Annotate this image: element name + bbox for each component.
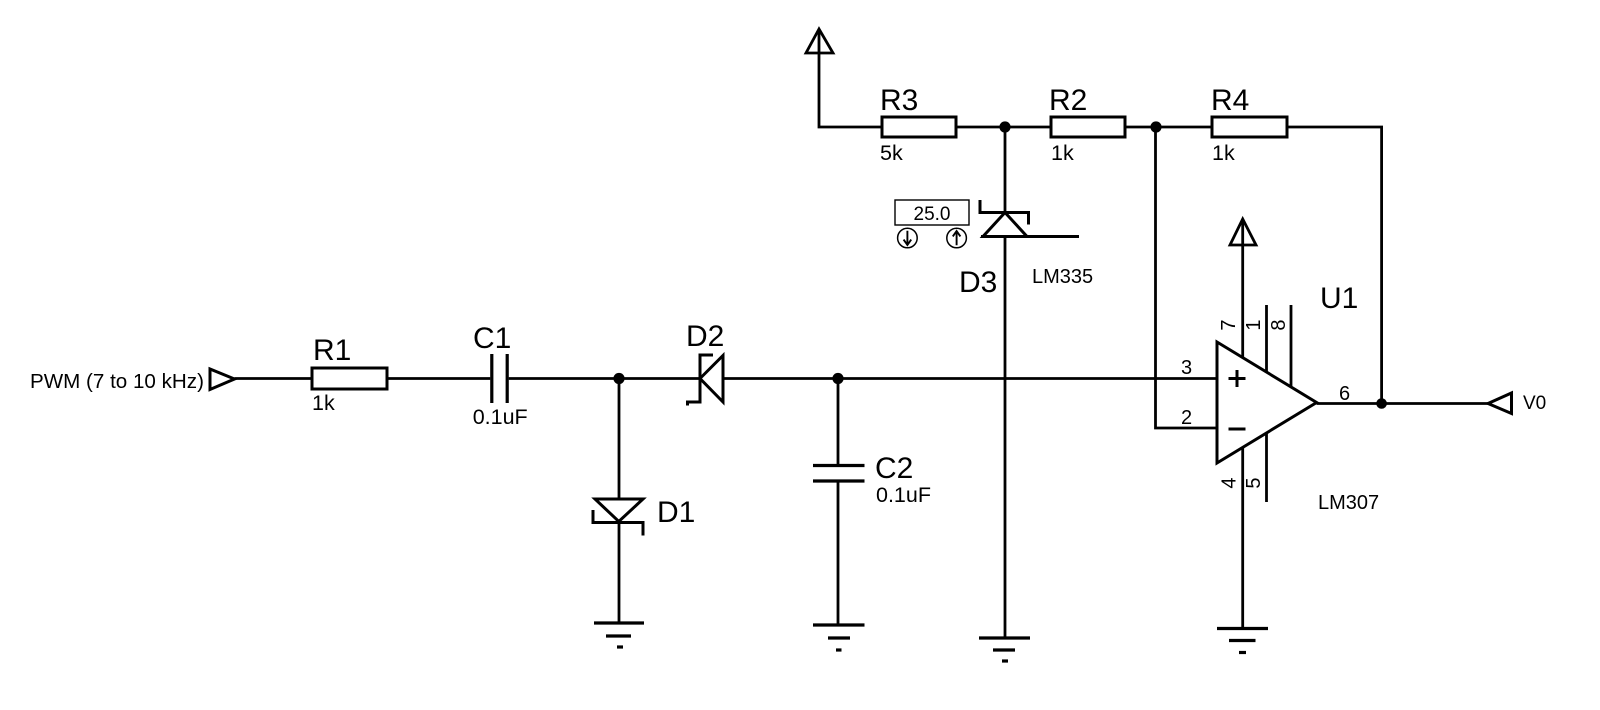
button up [947, 228, 967, 248]
wire inverting input from node D to pin 2 [1156, 127, 1218, 428]
svg-text:1: 1 [1243, 319, 1265, 330]
temp sensor diode D3 LM335 [980, 200, 1029, 225]
port V0 output arrow [1488, 393, 1512, 414]
wire C2 to ground [837, 481, 840, 625]
resistor R4 [1212, 117, 1287, 137]
svg-text:6: 6 [1339, 383, 1350, 405]
display 25.0 readout box [895, 200, 969, 225]
port PWM input arrow [210, 369, 235, 390]
svg-text:5: 5 [1243, 477, 1265, 488]
minus symbol [1229, 428, 1246, 431]
wire D3 down to ground [1004, 237, 1007, 639]
wire R1 to C1 [387, 377, 490, 380]
power VCC arrow for U1 [1230, 219, 1256, 245]
svg-text:D2: D2 [686, 320, 724, 353]
wire D2 to op-amp pin 3 [723, 377, 1217, 380]
svg-text:5k: 5k [880, 141, 903, 165]
svg-text:V0: V0 [1523, 393, 1546, 414]
wire D1 to ground [618, 523, 621, 624]
pin 4 stub to ground [1241, 445, 1244, 629]
wire R4 right and down to output node [1287, 127, 1382, 404]
svg-text:7: 7 [1218, 319, 1240, 330]
ground for U1 [1217, 627, 1268, 630]
svg-text:3: 3 [1181, 357, 1192, 379]
zener diode D2 [688, 355, 714, 406]
svg-text:PWM (7 to 10 kHz): PWM (7 to 10 kHz) [30, 370, 204, 393]
pin 8 stub [1290, 305, 1293, 390]
pin 5 stub [1265, 430, 1268, 502]
svg-text:LM335: LM335 [1032, 266, 1093, 288]
svg-text:0.1uF: 0.1uF [473, 405, 528, 429]
ground for C2 [813, 623, 865, 626]
wire input to R1 [235, 377, 313, 380]
wire R3 to R2 [956, 126, 1051, 129]
wire node C down to D3 [1004, 127, 1007, 213]
svg-text:8: 8 [1268, 319, 1290, 330]
button down [898, 228, 918, 248]
svg-text:R1: R1 [313, 334, 351, 367]
ground for D3 [979, 636, 1030, 639]
svg-text:D3: D3 [959, 266, 997, 299]
resistor R2 [1051, 117, 1125, 137]
node A junction dot [613, 373, 624, 384]
resistor R1 [312, 368, 387, 389]
wire node B down to C2 [837, 379, 840, 466]
svg-text:1k: 1k [1212, 141, 1235, 165]
node D junction dot [1150, 121, 1161, 132]
svg-text:LM307: LM307 [1318, 492, 1379, 514]
wire pin 7 to VCC [1241, 219, 1244, 360]
svg-text:D1: D1 [657, 496, 695, 529]
svg-text:0.1uF: 0.1uF [876, 483, 931, 507]
ground for D1 [594, 621, 644, 624]
wire C1 to D2 [509, 377, 699, 380]
pin 6 output wire [1317, 402, 1488, 405]
svg-text:C2: C2 [875, 452, 913, 485]
power VCC arrow top-left [806, 29, 833, 53]
svg-text:R3: R3 [880, 84, 918, 117]
capacitor C1 [490, 354, 493, 403]
svg-text:R4: R4 [1211, 84, 1249, 117]
wire R2 to R4 [1125, 126, 1212, 129]
node B junction dot [832, 373, 843, 384]
svg-text:1k: 1k [312, 391, 335, 415]
pin 1 stub [1265, 305, 1268, 375]
wire VCC down and right to R3 [819, 29, 882, 127]
plus symbol [1229, 370, 1246, 387]
svg-text:25.0: 25.0 [914, 204, 951, 225]
wire node A down to D1 [618, 379, 621, 500]
node E output junction dot [1376, 398, 1387, 409]
node C junction dot [999, 121, 1010, 132]
svg-text:1k: 1k [1051, 141, 1074, 165]
svg-text:2: 2 [1181, 407, 1192, 429]
capacitor C2 [813, 464, 865, 467]
svg-text:U1: U1 [1320, 282, 1358, 315]
resistor R3 [882, 117, 956, 137]
op-amp U1 triangle [1217, 342, 1317, 463]
svg-text:4: 4 [1219, 477, 1241, 488]
svg-text:R2: R2 [1049, 84, 1087, 117]
svg-text:C1: C1 [473, 322, 511, 355]
zener diode D1 [595, 499, 643, 522]
